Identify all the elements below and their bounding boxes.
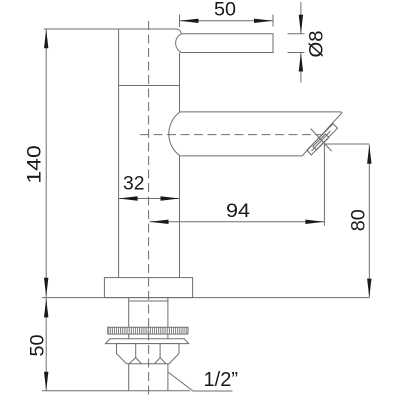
aerator inner ring [313,134,329,150]
svg-text:140: 140 [24,145,45,184]
dimension 94 line [150,144,325,226]
svg-text:80: 80 [349,209,370,231]
faucet body top line with extension [44,29,181,34]
dimension dia8 lines [288,2,305,83]
hex nut [117,344,180,364]
threaded shank [129,298,168,339]
svg-text:94: 94 [226,201,250,222]
leader line 1/2 [168,372,233,391]
body joint line [119,85,180,87]
base flange [104,278,192,298]
svg-text:32: 32 [123,174,145,195]
svg-text:50: 50 [28,335,49,357]
dimension 50 top lines [180,15,274,28]
aerator cross mark [311,129,332,152]
svg-text:Ø8: Ø8 [307,31,328,58]
dimension 80 lines [324,144,369,298]
arrowheads [180,19,199,23]
vertical centerline [148,21,150,398]
spout [169,112,342,156]
dimension 32 line [119,198,180,200]
mounting surface line [42,297,369,299]
washer plate [106,339,189,344]
faucet body right edge [179,53,181,278]
svg-text:50: 50 [214,0,236,21]
dimension 140 line [45,29,47,297]
handle lever [176,34,273,53]
knurled locknut band [108,327,188,334]
aerator outer ring [307,124,338,155]
svg-text:1/2”: 1/2” [204,369,239,391]
faucet body left edge [118,29,120,278]
dimension 50 bottom line [45,298,47,391]
spout centerline [140,134,321,136]
tailpiece [129,364,168,391]
bottom extension line [42,390,190,392]
